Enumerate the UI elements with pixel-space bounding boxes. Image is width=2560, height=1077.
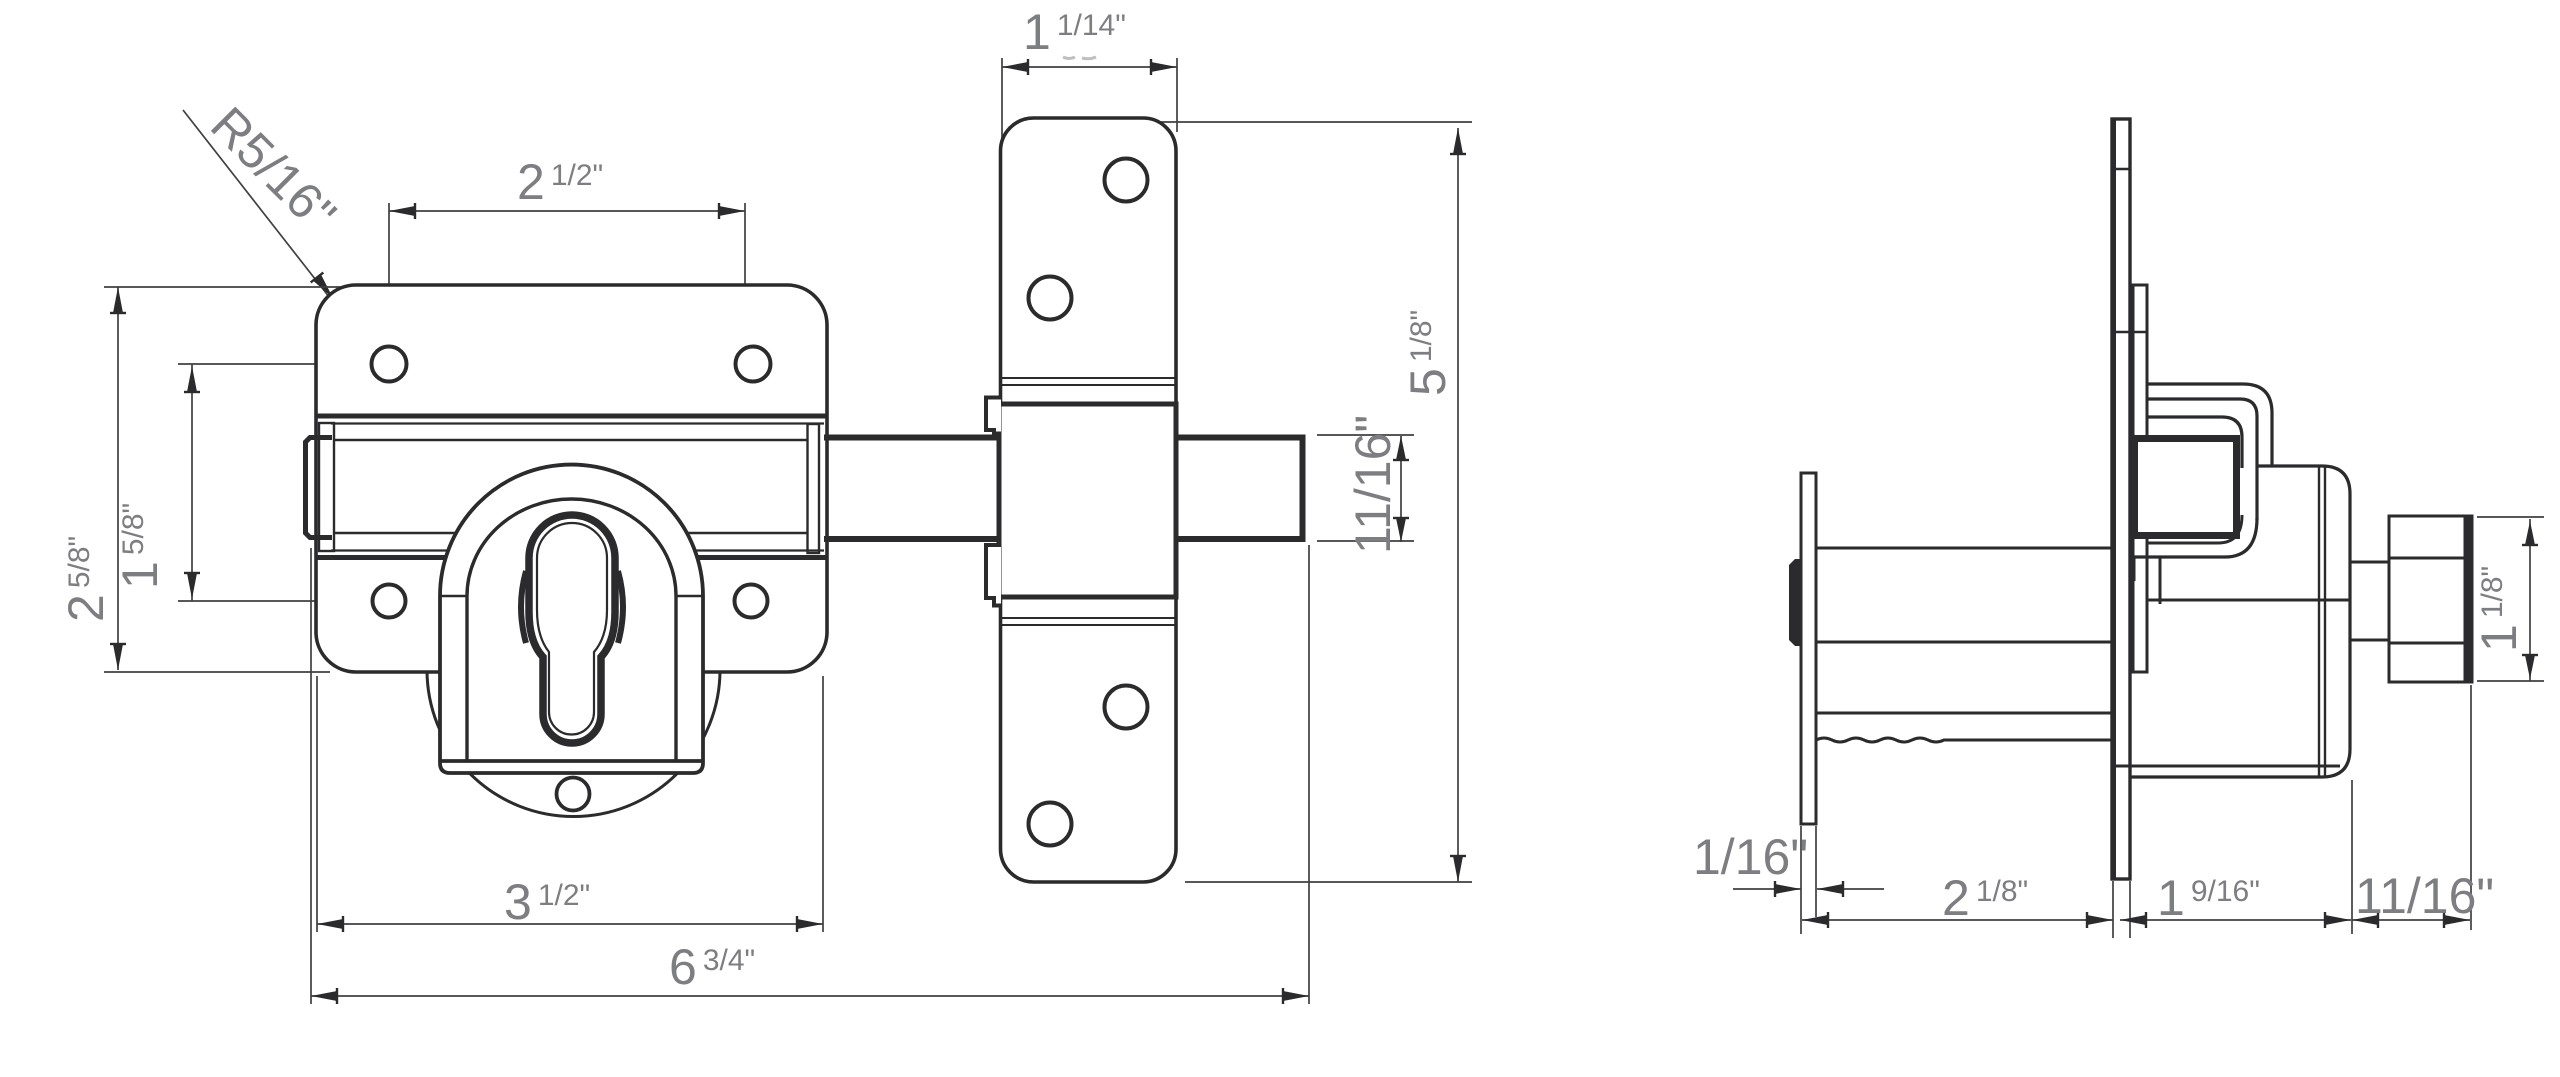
dimension 1/16in xyxy=(1733,888,1801,890)
bracket top tab xyxy=(986,398,1001,434)
escutcheon bell circle xyxy=(427,524,720,817)
plate mounting hole top-left xyxy=(372,347,407,382)
thumb-turn knob xyxy=(2389,516,2465,682)
dimension 6 3/4in xyxy=(311,995,1309,997)
dimension 11/16in vertical xyxy=(1400,436,1402,542)
extension line: keeper top to 5 1/8 dim xyxy=(1148,121,1472,123)
side view bracket lower tab xyxy=(2131,557,2136,581)
extension line: keeper bottom to 5 1/8 dim xyxy=(1185,881,1472,883)
dimension 2 5/8in xyxy=(117,287,119,670)
dimension 11/16in bottom xyxy=(2352,919,2470,921)
plate mounting hole top-right xyxy=(736,347,771,382)
extension lines: plate thickness 1/16in xyxy=(1800,826,1802,934)
bracket bottom tab xyxy=(986,545,1001,606)
svg-text:11/16": 11/16" xyxy=(1345,415,1401,554)
cylinder body lines xyxy=(1816,547,2112,550)
dome inner contour xyxy=(467,499,676,761)
side view mounting plate strip xyxy=(1801,473,1816,824)
bolt rear head xyxy=(306,438,333,538)
extension lines: bottom dims xyxy=(2112,881,2114,938)
svg-text:1/16": 1/16" xyxy=(1693,829,1808,885)
escutcheon screw hole xyxy=(557,778,590,811)
dimension 1 1/14in xyxy=(1002,66,1177,68)
dimension 3 1/2in xyxy=(317,923,823,925)
dimension 2 1/8in xyxy=(1802,919,2113,921)
svg-text:11/16": 11/16" xyxy=(2355,868,2494,924)
keeper fold lines xyxy=(1001,377,1175,379)
dimension 1 1/8in xyxy=(2529,519,2531,681)
dimension 1 5/8in xyxy=(191,364,193,601)
keeper guide bracket xyxy=(999,404,1176,597)
slide channel bottom rail xyxy=(331,549,824,551)
slide channel top rail xyxy=(316,414,826,419)
side view bracket inner fold xyxy=(2147,417,2242,468)
extension lines: keeper width 1 1/14in xyxy=(1001,58,1003,140)
extension lines: front view top holes 2 1/2in xyxy=(388,203,390,366)
extension lines: bolt diameter 11/16in xyxy=(1317,434,1414,436)
side view keeper strip xyxy=(2112,119,2130,879)
bolt bar through keeper (thick) xyxy=(995,438,1302,540)
bolt bar exposed (thick) xyxy=(824,435,1303,543)
cylinder dome housing xyxy=(440,465,703,773)
keeper screw hole top-right xyxy=(1105,159,1148,202)
thumb-turn stem xyxy=(2350,561,2389,564)
dimension 1 9/16in xyxy=(2120,919,2351,921)
keeper screw hole upper-left xyxy=(1029,277,1072,320)
extension lines: overall length 6 3/4in xyxy=(310,548,312,1004)
euro cylinder keyhole xyxy=(529,515,615,743)
cylinder cam (black) xyxy=(1789,559,1802,646)
radius leader R5/16in xyxy=(183,110,362,339)
plate mounting hole bottom-left xyxy=(373,585,406,618)
left guide tab xyxy=(319,423,334,551)
keeper screw hole lower-right xyxy=(1105,686,1148,729)
bolt square cross-section xyxy=(2135,439,2237,536)
plate mounting hole bottom-right xyxy=(735,585,768,618)
keeper plate (front view) xyxy=(1001,118,1177,882)
extension lines: knob height 1 1/8in xyxy=(2477,516,2544,518)
cylinder side cams xyxy=(521,571,526,643)
keeper screw hole bottom-left xyxy=(1029,803,1072,846)
cylinder knurled line xyxy=(1816,738,2112,742)
bolt bar inside channel xyxy=(334,439,807,442)
mounting plate (front view) xyxy=(316,285,827,672)
side view lock block xyxy=(2131,466,2350,777)
extension lines: plate width 3 1/2in xyxy=(316,676,318,932)
extension lines: plate height 2 5/8in xyxy=(104,286,347,288)
side view lock plate strip xyxy=(2133,285,2147,672)
right guide tab xyxy=(808,424,820,553)
dimension 5 1/8in xyxy=(1457,128,1459,882)
faint erased marks xyxy=(1063,57,1096,59)
dome shoulder steps xyxy=(440,595,467,598)
dimension 2 1/2in xyxy=(389,210,745,212)
extension lines: hole spacing 1 5/8in xyxy=(178,363,390,365)
side view bracket outer fold xyxy=(2147,384,2272,465)
